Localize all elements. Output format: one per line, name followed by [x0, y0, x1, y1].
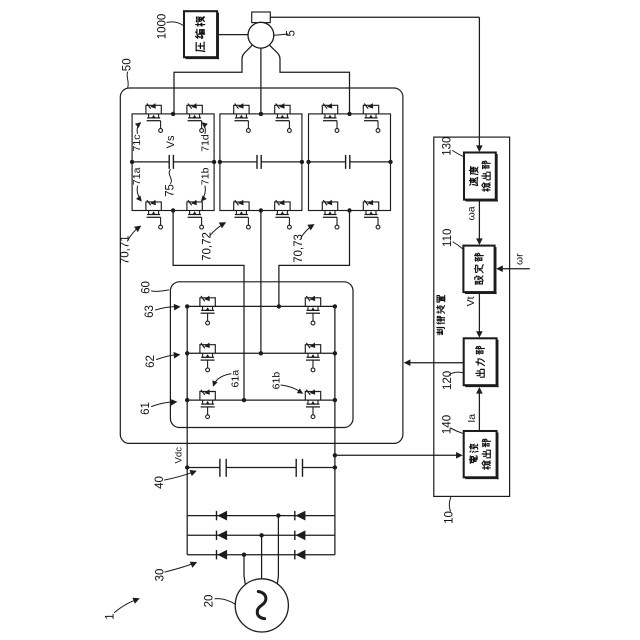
- svg-text:71a: 71a: [131, 167, 143, 185]
- MOSFET cell1 bottom-right: [187, 200, 204, 229]
- diode D3: [217, 550, 228, 560]
- arrow 61a: [214, 374, 231, 384]
- MOSFET cell2 bottom-left: [234, 200, 251, 229]
- node cell 3 top center: [347, 112, 351, 116]
- node cell 2 top center: [259, 112, 263, 116]
- arrow 120 to block 50: [408, 362, 464, 364]
- wire bus to current detector 140: [335, 454, 459, 456]
- setting box 110 (設定部): [463, 246, 494, 293]
- node cell 3 bottom center: [347, 208, 351, 212]
- arrow 110 to 120: [478, 292, 480, 333]
- node cell 3 mid-right: [388, 160, 392, 164]
- svg-text:Vs: Vs: [165, 135, 177, 148]
- node cell 1 bottom center: [171, 208, 175, 212]
- node cell 1 mid-left: [130, 160, 134, 164]
- switch row2 right: [305, 343, 320, 372]
- switch row1 right: [305, 296, 320, 325]
- svg-text:ωa: ωa: [465, 206, 477, 220]
- arrow wr to 110: [500, 268, 530, 270]
- wire cell2 output to leg v: [260, 211, 262, 354]
- MOSFET cell2 top-left: [234, 103, 251, 132]
- svg-text:1: 1: [105, 613, 117, 619]
- wire phase S to source: [261, 535, 263, 579]
- switch 61b (row3 right): [305, 389, 320, 418]
- wire motor to speed detector (top run): [270, 16, 479, 18]
- motor M 5: [248, 22, 274, 48]
- arrow 40: [165, 472, 193, 480]
- switch 61a (row3 left): [200, 389, 215, 418]
- svg-text:110: 110: [442, 229, 454, 247]
- node phase R tap: [276, 513, 280, 517]
- svg-text:ωr: ωr: [514, 253, 526, 265]
- svg-text:1000: 1000: [157, 14, 169, 40]
- node left rail y400: [185, 398, 189, 402]
- svg-text:Ia: Ia: [466, 414, 478, 423]
- leader 140: [450, 428, 462, 433]
- svg-text:Vt: Vt: [465, 296, 477, 306]
- leader 5: [274, 34, 288, 35]
- node cell 3 mid-left: [306, 160, 310, 164]
- arrow 61: [152, 402, 174, 407]
- speed detector box 130 (速度検出部): [464, 153, 496, 200]
- block60 row 1 wire: [187, 305, 335, 307]
- arrow 130 to 110: [478, 200, 480, 241]
- svg-text:71c: 71c: [131, 135, 143, 152]
- node left rail y353: [185, 351, 189, 355]
- diode D2: [217, 530, 228, 540]
- svg-text:61b: 61b: [271, 372, 283, 390]
- current detector box 140 (電流検出部): [464, 431, 497, 477]
- arrow 62: [157, 355, 177, 360]
- inverter bridge block 60 outline: [170, 282, 353, 428]
- svg-text:140: 140: [441, 415, 453, 434]
- diode D1: [217, 511, 228, 521]
- wire phase R to source: [277, 516, 278, 586]
- arrow 71c: [137, 123, 140, 133]
- capacitor C1 (40): [219, 459, 221, 477]
- arrow 61b: [281, 385, 301, 392]
- leader 60: [152, 290, 169, 292]
- node bus right: [333, 465, 337, 469]
- arrow 140 to 120: [478, 391, 480, 431]
- cell 3 middle wire: [309, 161, 346, 163]
- diode D4: [295, 511, 306, 521]
- MOSFET cell1 bottom-left: [146, 200, 163, 229]
- svg-text:130: 130: [442, 137, 454, 156]
- svg-text:10: 10: [444, 511, 456, 524]
- node current-sense tap: [333, 453, 337, 457]
- MOSFET cell3 top-right: [363, 103, 380, 132]
- bridge cell 70,71 outline: [132, 114, 214, 211]
- svg-text:61: 61: [140, 402, 152, 415]
- node feed u: [277, 304, 281, 308]
- arrow 70,73: [301, 225, 313, 237]
- motor lead phase V: [260, 48, 262, 114]
- leader 1000: [167, 22, 183, 26]
- capacitor C2 (40): [295, 459, 297, 477]
- rectifier row 1 wire: [187, 515, 335, 517]
- svg-text:75: 75: [165, 184, 177, 197]
- wire cell3 output to leg u: [279, 211, 350, 307]
- svg-text:63: 63: [144, 305, 156, 318]
- MOSFET cell1 top-left: [146, 103, 163, 132]
- node cell 2 bottom center: [259, 208, 263, 212]
- motor lead phase U: [174, 46, 252, 114]
- arrow 70,72: [210, 223, 224, 235]
- svg-text:50: 50: [121, 58, 133, 71]
- node feed v: [259, 351, 263, 355]
- node cell 2 mid-left: [218, 160, 222, 164]
- bridge cell 70,73 outline: [309, 114, 391, 211]
- svg-text:71d: 71d: [199, 134, 211, 152]
- AC source waveform symbol: [257, 592, 266, 619]
- svg-text:61a: 61a: [230, 370, 242, 388]
- node bus left: [185, 465, 189, 469]
- AC source 20 circle: [235, 579, 288, 632]
- rectifier row 2 wire: [187, 534, 335, 536]
- wire cell1 output to leg w: [173, 211, 244, 401]
- cell 2 middle wire: [220, 161, 257, 163]
- MOSFET cell2 bottom-right: [275, 200, 292, 229]
- leader 10: [449, 497, 450, 511]
- node phase S tap: [259, 533, 263, 537]
- block60 row 2 wire: [187, 352, 335, 354]
- arrow 1: [115, 600, 137, 613]
- arrow 30: [165, 564, 194, 573]
- leader 50: [127, 72, 128, 87]
- svg-text:20: 20: [204, 595, 216, 608]
- cell 1 middle wire: [132, 161, 169, 163]
- leader 120: [450, 372, 463, 374]
- diode D5: [295, 530, 306, 540]
- svg-text:62: 62: [145, 355, 157, 368]
- node cell 1 mid-right: [212, 160, 216, 164]
- output box 120 (出力部): [464, 338, 497, 385]
- arrow 71b: [202, 186, 206, 201]
- leader 130: [453, 151, 464, 157]
- right DC rail: [334, 306, 336, 554]
- node right rail y353: [333, 351, 337, 355]
- DC bus wire mid segment: [226, 467, 296, 469]
- svg-text:70,72: 70,72: [202, 232, 214, 261]
- svg-text:71b: 71b: [199, 167, 211, 185]
- leader 110: [453, 242, 462, 249]
- rectifier row 3 wire: [187, 554, 335, 556]
- bridge cell 70,72 outline: [220, 114, 302, 211]
- wire compressor to motor: [217, 34, 248, 36]
- svg-text:5: 5: [286, 30, 298, 36]
- MOSFET cell3 bottom-right: [363, 200, 380, 229]
- node right rail y400: [333, 398, 337, 402]
- switch 62 (row2 left): [200, 343, 215, 372]
- capacitor in cell 2: [256, 155, 258, 169]
- DC bus wire right segment: [303, 467, 335, 469]
- block60 row 3 wire: [187, 399, 335, 401]
- wire phase T to source: [244, 555, 246, 586]
- MOSFET cell3 top-left: [322, 103, 339, 132]
- arrow 70,71: [128, 227, 140, 241]
- node phase T tap: [242, 553, 246, 557]
- svg-text:Vdc: Vdc: [174, 447, 185, 464]
- node cell 1 top center: [171, 112, 175, 116]
- node left rail y306: [185, 304, 189, 308]
- node cell 2 mid-right: [300, 160, 304, 164]
- svg-text:30: 30: [155, 569, 167, 582]
- capacitor in cell 1: [168, 155, 170, 169]
- label 制御装置 (control device): [437, 295, 445, 334]
- MOSFET cell1 top-right: [187, 103, 204, 132]
- node right rail y306: [333, 304, 337, 308]
- control unit 10 outline: [434, 137, 510, 496]
- capacitor in cell 3: [345, 155, 347, 169]
- svg-text:40: 40: [154, 476, 166, 489]
- DC bus wire left segment: [187, 467, 220, 469]
- diode D6: [295, 550, 306, 560]
- motor terminal box: [252, 12, 271, 23]
- left DC rail: [186, 306, 188, 554]
- switch 63 upper-left (row1 left): [200, 296, 215, 325]
- node feed w: [242, 398, 246, 402]
- MOSFET cell3 bottom-left: [322, 200, 339, 229]
- svg-text:70,71: 70,71: [120, 235, 132, 264]
- motor lead phase W: [270, 46, 350, 114]
- leader 75: [169, 170, 171, 184]
- leader 20: [215, 599, 236, 605]
- svg-text:70,73: 70,73: [293, 234, 305, 263]
- arrow 71a: [137, 186, 141, 201]
- arrow 71d: [203, 123, 206, 133]
- MOSFET cell2 top-right: [275, 103, 292, 132]
- inverter block 50 outline: [120, 88, 403, 443]
- svg-text:60: 60: [141, 281, 153, 294]
- arrow 63: [156, 307, 177, 310]
- compressor box 1000 (圧縮機): [184, 11, 217, 57]
